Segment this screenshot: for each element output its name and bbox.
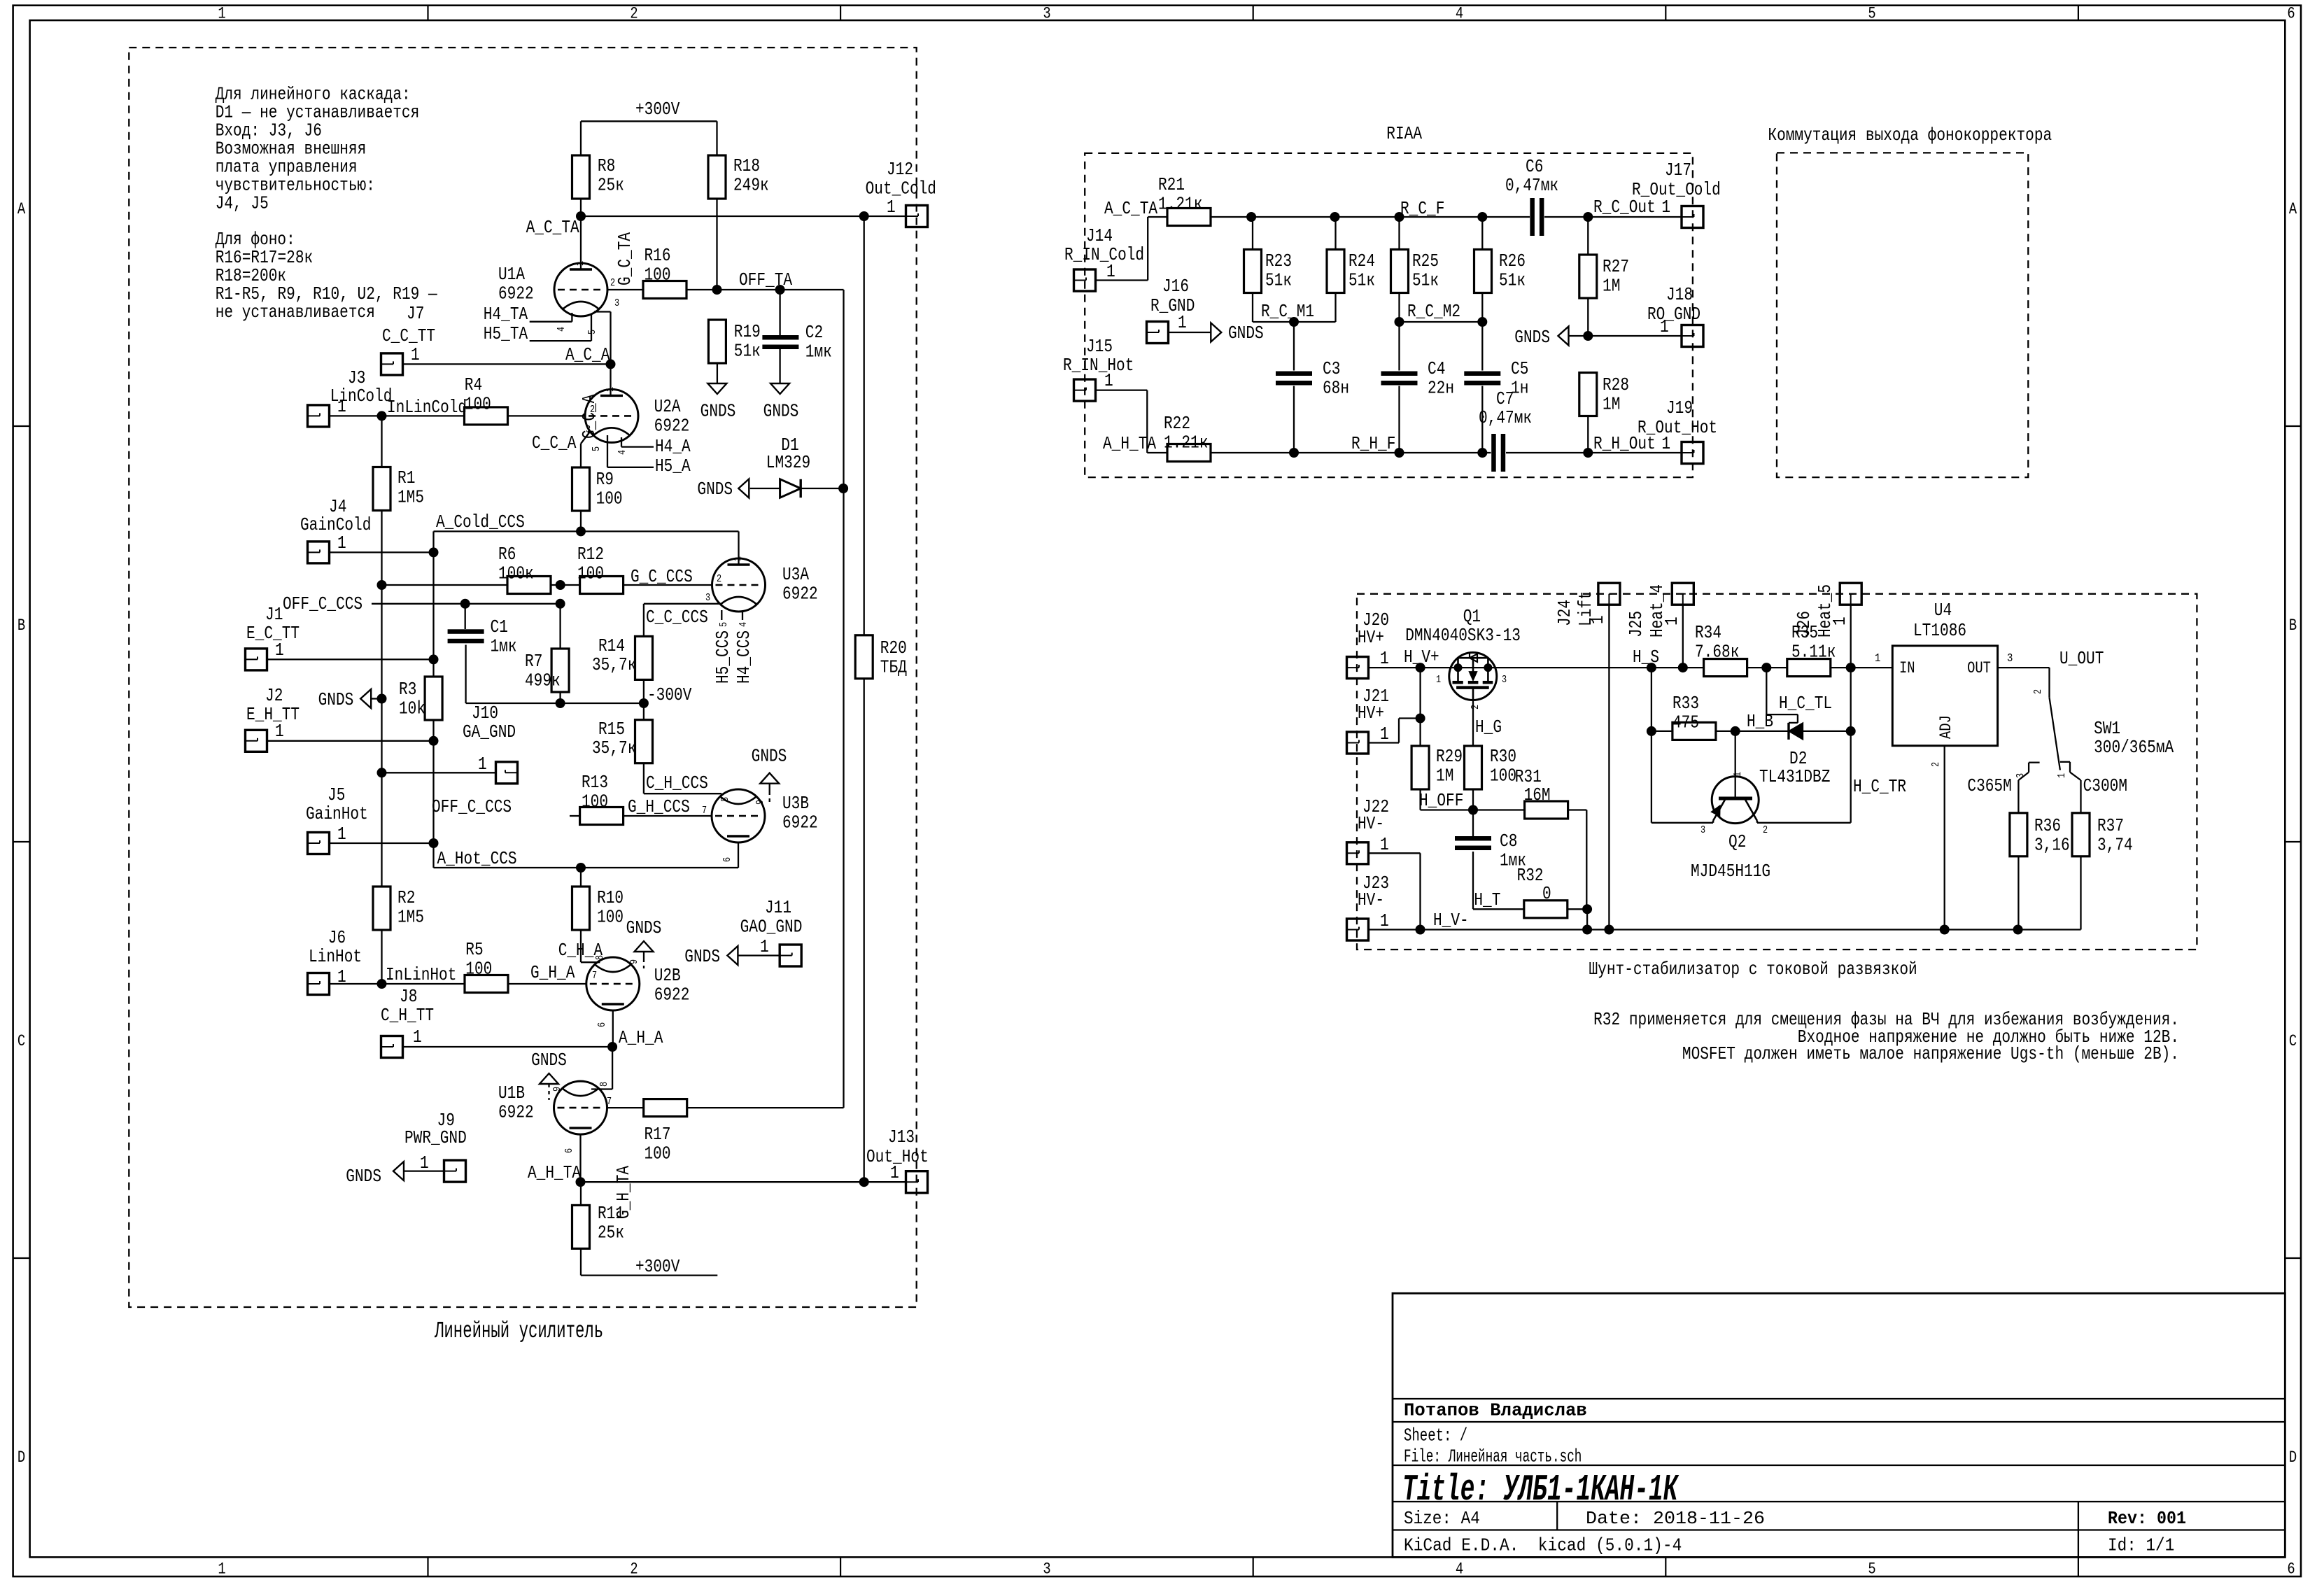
wire U2A heater H5_A <box>607 435 654 467</box>
resistor R30 <box>1465 746 1517 789</box>
resistor R28 <box>1579 373 1629 416</box>
svg-text:J15: J15 <box>1086 337 1113 357</box>
svg-text:5: 5 <box>1868 1560 1875 1579</box>
node J26 H_S <box>1846 663 1856 672</box>
svg-text:U1B: U1B <box>498 1083 525 1103</box>
svg-text:3,16: 3,16 <box>2034 835 2070 856</box>
svg-text:51к: 51к <box>734 341 761 362</box>
resistor R37 <box>2072 813 2133 856</box>
wire InLinHot <box>330 983 465 985</box>
wire J2 to E column <box>267 740 434 742</box>
switch SW1 <box>2015 689 2174 780</box>
svg-text:1: 1 <box>337 397 346 417</box>
svg-text:U2A: U2A <box>654 397 681 417</box>
wire U3A plate <box>738 531 739 565</box>
svg-text:2: 2 <box>1763 825 1768 836</box>
svg-text:0,47мк: 0,47мк <box>1505 176 1558 196</box>
resistor R9 <box>572 467 623 511</box>
wire H_V- rail <box>1369 929 2081 930</box>
wire U1A plate <box>580 216 582 269</box>
wire R7 pins <box>559 604 561 703</box>
svg-text:+300V: +300V <box>635 99 680 120</box>
svg-text:R17: R17 <box>645 1124 671 1145</box>
connector J6 <box>308 928 362 995</box>
RIAA dashed box <box>1085 153 1693 477</box>
svg-text:35,7к: 35,7к <box>592 738 636 759</box>
svg-text:1M5: 1M5 <box>397 488 424 508</box>
svg-text:C4: C4 <box>1428 359 1445 379</box>
wire InLinCold <box>330 415 465 416</box>
svg-text:3: 3 <box>1043 1560 1050 1579</box>
node OFF_TA R18 <box>712 285 722 295</box>
svg-text:A_C_TA: A_C_TA <box>526 218 580 238</box>
wire R19 bottom <box>717 363 718 383</box>
svg-text:R_IN_Cold: R_IN_Cold <box>1064 245 1144 265</box>
svg-text:D2: D2 <box>1789 749 1807 769</box>
wire E column to A_Hot_CCS <box>432 843 434 868</box>
svg-text:File: Линейная часть.sch: File: Линейная часть.sch <box>1404 1447 1582 1467</box>
svg-text:1: 1 <box>1178 313 1187 333</box>
wire U3A heater stubs <box>721 610 742 620</box>
svg-text:1: 1 <box>275 721 284 742</box>
svg-text:R11: R11 <box>598 1204 624 1224</box>
wire J9 to GNDS <box>404 1170 444 1171</box>
svg-text:R34: R34 <box>1695 623 1721 643</box>
node H_V- Lift <box>1604 925 1614 935</box>
svg-text:R29: R29 <box>1436 747 1463 767</box>
svg-text:3: 3 <box>1700 825 1705 836</box>
connector J19 <box>1638 398 1717 464</box>
svg-text:1: 1 <box>1436 675 1441 686</box>
wire R37 bottom <box>2080 856 2081 930</box>
transistor Q2 MJD45H11G <box>1691 731 1851 882</box>
svg-text:2: 2 <box>717 574 721 585</box>
svg-text:2: 2 <box>630 1560 638 1579</box>
connector J13 <box>866 1127 929 1193</box>
node Out_Cold column top <box>859 211 869 221</box>
wire C2 leads <box>779 290 780 383</box>
svg-text:Для линейного каскада:: Для линейного каскада: <box>216 85 411 105</box>
svg-text:1: 1 <box>218 1560 225 1579</box>
resistor R7 <box>525 649 569 692</box>
svg-text:300/365мА: 300/365мА <box>2094 738 2174 758</box>
svg-text:GainHot: GainHot <box>306 804 368 824</box>
wire RO_GND <box>1568 335 1682 337</box>
wire H_T <box>1473 908 1587 910</box>
svg-text:6: 6 <box>2287 5 2295 23</box>
node R29 top <box>1416 714 1425 724</box>
svg-text:R10: R10 <box>597 888 624 908</box>
wire R28 bottom <box>1587 416 1589 453</box>
node A_H_TA <box>576 1177 586 1187</box>
svg-text:OFF_C_CCS: OFF_C_CCS <box>283 594 362 614</box>
wire U4 ADJ down <box>1944 746 1945 930</box>
svg-text:HV+: HV+ <box>1358 703 1384 724</box>
svg-text:GNDS: GNDS <box>531 1050 567 1071</box>
power symbol GNDS <box>684 946 738 967</box>
node InLinCold <box>377 411 387 421</box>
svg-text:C_C_CCS: C_C_CCS <box>646 607 708 628</box>
svg-text:A_H_TA: A_H_TA <box>528 1163 582 1183</box>
svg-text:3,74: 3,74 <box>2097 835 2133 856</box>
svg-text:C300M: C300M <box>2083 776 2127 796</box>
svg-text:KiCad E.D.A. kicad (5.0.1)-4: KiCad E.D.A. kicad (5.0.1)-4 <box>1404 1536 1682 1556</box>
svg-text:чувствительностью:: чувствительностью: <box>216 176 375 196</box>
node A_H_A <box>607 1042 617 1052</box>
svg-text:J1: J1 <box>265 605 283 625</box>
svg-text:LinHot: LinHot <box>309 947 362 967</box>
pin numbers U1B <box>552 1082 612 1153</box>
resistor R6 <box>498 544 551 594</box>
svg-text:LT1086: LT1086 <box>1913 621 1966 641</box>
pin numbers U2B <box>592 955 640 1027</box>
node J1 <box>429 654 439 664</box>
resistor R8 <box>572 155 624 199</box>
node R_C_Out <box>1583 212 1593 222</box>
connector J20 <box>1347 610 1390 679</box>
svg-text:Для фоно:: Для фоно: <box>216 230 295 250</box>
node R33 left <box>1647 726 1656 736</box>
resistor R29 <box>1411 746 1463 789</box>
svg-text:R_IN_Hot: R_IN_Hot <box>1063 355 1134 376</box>
wire R36 bottom <box>2017 856 2019 930</box>
frame row letters <box>17 200 2297 1467</box>
svg-text:1: 1 <box>1104 371 1113 391</box>
svg-text:R25: R25 <box>1412 251 1439 271</box>
wire J1 to E column <box>267 658 434 660</box>
svg-text:R16: R16 <box>645 246 671 266</box>
labels C6 <box>1505 157 1558 196</box>
node R26 top <box>1477 212 1487 222</box>
svg-text:3: 3 <box>1043 5 1050 23</box>
svg-text:1: 1 <box>1661 197 1670 218</box>
power symbol GNDS <box>763 383 799 421</box>
svg-text:E_C_TT: E_C_TT <box>246 623 300 644</box>
svg-text:R22: R22 <box>1164 414 1190 434</box>
wire Q1 gate H_G <box>1472 700 1474 746</box>
svg-text:1: 1 <box>1588 615 1608 624</box>
node H_OFF <box>1468 805 1478 815</box>
svg-text:100: 100 <box>577 564 604 584</box>
svg-text:B: B <box>17 616 25 635</box>
svg-text:R_C_Out: R_C_Out <box>1593 197 1656 218</box>
connector J18 <box>1647 285 1703 347</box>
wire R35 right <box>1831 667 1893 668</box>
svg-text:R37: R37 <box>2097 816 2124 836</box>
wire R11 pins <box>580 1182 582 1275</box>
wire R17 right to OFF_TA vertical <box>687 1107 844 1108</box>
svg-text:1M: 1M <box>1603 395 1620 415</box>
node J2 <box>429 736 439 746</box>
svg-text:6: 6 <box>2287 1560 2295 1579</box>
wire A_H_A to U1B cathode <box>591 1047 612 1089</box>
connector J5 <box>306 785 368 854</box>
wire R_C rail <box>1211 216 1682 218</box>
svg-text:D: D <box>2289 1448 2297 1467</box>
wire J4 to E column <box>330 551 434 553</box>
svg-text:A_Cold_CCS: A_Cold_CCS <box>436 512 525 532</box>
power symbol GNDS <box>700 383 736 421</box>
svg-text:J24: J24 <box>1555 600 1575 626</box>
svg-text:GainCold: GainCold <box>300 515 371 535</box>
svg-text:GA_GND: GA_GND <box>463 722 516 742</box>
svg-text:R27: R27 <box>1603 257 1629 277</box>
svg-text:1: 1 <box>1380 649 1389 669</box>
connector J23 <box>1347 873 1390 940</box>
resistor R19 <box>708 320 760 363</box>
node J5 <box>429 838 439 848</box>
wire Q2 emitter column <box>1652 668 1713 823</box>
svg-text:J16: J16 <box>1162 276 1189 297</box>
svg-text:R4: R4 <box>465 375 482 395</box>
wire GNDS arrow to rail <box>371 698 381 699</box>
wire U2A cathode <box>581 432 590 468</box>
node H_T <box>1582 904 1592 914</box>
svg-text:C8: C8 <box>1500 831 1517 852</box>
svg-text:Id: 1/1: Id: 1/1 <box>2108 1536 2174 1556</box>
wire R_C_M1 <box>1253 321 1336 323</box>
svg-text:100: 100 <box>465 395 491 415</box>
resistor R17 <box>644 1099 687 1164</box>
svg-text:9: 9 <box>552 1087 563 1092</box>
svg-text:ТБД: ТБД <box>880 658 907 678</box>
svg-text:3: 3 <box>614 298 619 309</box>
wire OFF_C_CCS <box>372 603 561 605</box>
svg-text:R23: R23 <box>1265 251 1292 271</box>
capacitor C1 <box>448 617 517 657</box>
svg-text:R_GND: R_GND <box>1150 296 1195 316</box>
svg-text:2: 2 <box>1931 762 1942 767</box>
node RO_GND <box>1583 331 1593 341</box>
svg-text:4: 4 <box>617 450 628 455</box>
svg-text:LM329: LM329 <box>766 453 810 473</box>
wire U1B shield pin dashed <box>548 1084 549 1100</box>
svg-text:1: 1 <box>411 345 420 365</box>
svg-text:+300V: +300V <box>635 1257 680 1277</box>
svg-text:J18: J18 <box>1666 285 1693 305</box>
svg-text:плата управления: плата управления <box>216 157 358 178</box>
svg-text:2: 2 <box>1470 705 1481 710</box>
svg-text:100: 100 <box>597 908 624 928</box>
connector J12 <box>866 160 936 227</box>
svg-text:475: 475 <box>1672 713 1699 733</box>
wire C1 bottom <box>465 604 561 703</box>
wire R13 left stub <box>570 815 580 817</box>
svg-text:6: 6 <box>597 1022 608 1027</box>
svg-text:J4, J5: J4, J5 <box>216 194 269 214</box>
wire R5 to U2B grid <box>508 983 586 985</box>
regulator U4 LT1086 <box>1892 600 1997 746</box>
svg-text:Q1: Q1 <box>1463 607 1481 627</box>
svg-text:16M: 16M <box>1524 785 1551 805</box>
svg-text:J12: J12 <box>887 160 913 180</box>
svg-text:A_C_A: A_C_A <box>565 345 610 365</box>
resistor R16 <box>643 246 686 299</box>
svg-text:U3B: U3B <box>782 793 809 814</box>
triode U1B <box>498 1081 607 1134</box>
wire U2A heater H4_A <box>621 437 654 447</box>
svg-text:HV+: HV+ <box>1358 628 1384 648</box>
svg-text:U4: U4 <box>1934 600 1952 621</box>
wire J14 to R21 <box>1096 217 1168 281</box>
svg-text:A_C_TA: A_C_TA <box>1104 199 1158 219</box>
svg-text:5.11к: 5.11к <box>1791 642 1836 663</box>
wire H_S right <box>1652 667 1704 668</box>
wire J22 corner <box>1369 853 1421 929</box>
wire R26 pins <box>1481 217 1483 322</box>
wire J16 to GNDS <box>1169 332 1211 333</box>
svg-text:R6: R6 <box>498 544 516 565</box>
svg-text:GNDS: GNDS <box>1514 327 1550 348</box>
svg-text:C_C_A: C_C_A <box>532 433 577 453</box>
capacitor C4 <box>1381 359 1455 399</box>
capacitor C2 <box>762 323 831 362</box>
svg-text:R30: R30 <box>1490 747 1516 767</box>
wire OFF_TA <box>686 289 844 290</box>
wire A_C_TA rail <box>581 198 906 290</box>
svg-text:Возможная внешняя: Возможная внешняя <box>216 139 367 160</box>
svg-text:R15: R15 <box>598 719 625 740</box>
svg-text:J3: J3 <box>348 368 365 388</box>
svg-text:G_C_CCS: G_C_CCS <box>631 567 693 587</box>
svg-text:1: 1 <box>605 387 617 392</box>
wire H_OFF <box>1421 789 1525 810</box>
connector J17 <box>1632 160 1721 228</box>
wire J24 Lift vertical <box>1608 605 1610 929</box>
svg-text:6: 6 <box>722 857 733 862</box>
resistor R26 <box>1474 250 1526 293</box>
connector J26 <box>1794 583 1861 637</box>
svg-text:R_C_M2: R_C_M2 <box>1407 302 1460 322</box>
svg-text:8: 8 <box>599 1082 610 1087</box>
node H_V+ <box>1416 663 1425 672</box>
svg-text:R33: R33 <box>1672 693 1699 714</box>
wire R_C_M2 <box>1400 321 1483 323</box>
node R23 top <box>1246 212 1256 222</box>
wire J21 to R29 <box>1369 719 1421 743</box>
svg-text:1: 1 <box>337 967 346 987</box>
svg-text:J11: J11 <box>765 898 791 918</box>
node J25 H_S <box>1678 663 1688 672</box>
svg-text:51к: 51к <box>1499 271 1526 291</box>
pin numbers U1A <box>556 261 619 334</box>
svg-text:J13: J13 <box>888 1127 915 1148</box>
svg-text:10k: 10k <box>399 699 425 719</box>
resistor R31 <box>1525 801 1568 819</box>
svg-text:H4_TA: H4_TA <box>484 304 528 325</box>
svg-text:SW1: SW1 <box>2094 719 2120 739</box>
svg-text:51к: 51к <box>1412 271 1439 291</box>
svg-text:4: 4 <box>738 622 749 627</box>
wire U3B shield pin dashed <box>769 784 770 802</box>
svg-text:J6: J6 <box>328 928 346 948</box>
resistor R10 <box>572 887 624 930</box>
svg-text:GNDS: GNDS <box>1228 323 1264 344</box>
wire H_V+ / H_S rail <box>1369 667 1652 668</box>
svg-text:1мк: 1мк <box>491 637 517 657</box>
Kommutacia dashed box <box>1777 153 2028 477</box>
svg-text:OUT: OUT <box>1967 659 1991 677</box>
svg-text:GNDS: GNDS <box>700 401 736 421</box>
svg-text:6922: 6922 <box>782 584 818 605</box>
svg-text:PWR_GND: PWR_GND <box>404 1128 467 1148</box>
node R7 top <box>556 599 565 609</box>
resistor R22 <box>1164 414 1211 462</box>
wire C_H_TT <box>403 1046 613 1048</box>
resistor R33 <box>1672 693 1716 740</box>
svg-text:0,47мк: 0,47мк <box>1479 408 1532 428</box>
wire A_H_TA rail <box>581 1181 906 1183</box>
power symbol GNDS <box>1514 327 1568 348</box>
svg-text:4: 4 <box>1456 5 1463 23</box>
svg-text:R14: R14 <box>598 636 625 656</box>
svg-text:R21: R21 <box>1158 175 1185 195</box>
svg-text:J17: J17 <box>1665 160 1691 181</box>
connector J2 <box>246 686 300 752</box>
connector J16 <box>1147 276 1195 344</box>
svg-text:1: 1 <box>890 1163 899 1183</box>
wire U4 out <box>1998 668 2050 698</box>
node C1 <box>460 599 470 609</box>
svg-text:H4_CCS: H4_CCS <box>734 630 754 684</box>
svg-text:C_C_TT: C_C_TT <box>382 326 435 346</box>
svg-text:D: D <box>17 1448 25 1467</box>
svg-text:Коммутация выхода фонокорректо: Коммутация выхода фонокорректора <box>1768 125 2052 146</box>
transistor Q1 DMN4040SK3-13 <box>1405 607 1521 710</box>
svg-text:H_T: H_T <box>1474 890 1500 910</box>
wire J26 vertical <box>1850 605 1852 823</box>
svg-text:R16=R17=28к: R16=R17=28к <box>216 248 314 268</box>
svg-text:3: 3 <box>2007 652 2013 665</box>
wire H_C_TL path <box>1766 668 1798 723</box>
node A_Cold_CCS <box>576 526 586 536</box>
node H_V- ADJ <box>1940 925 1950 935</box>
svg-text:R18=200к: R18=200к <box>216 266 286 286</box>
labels R14 <box>592 636 636 675</box>
svg-text:H_V-: H_V- <box>1433 910 1469 931</box>
svg-text:Sheet: /: Sheet: / <box>1404 1426 1467 1446</box>
connector J21 <box>1347 686 1390 754</box>
svg-text:51к: 51к <box>1265 271 1292 291</box>
wire H_V+ down to R29 <box>1419 668 1421 746</box>
linear amplifier dashed box <box>129 48 916 1307</box>
wire U1A grid to R16 <box>607 289 643 290</box>
svg-text:1: 1 <box>337 533 346 553</box>
svg-text:GAO_GND: GAO_GND <box>740 917 803 938</box>
svg-text:1: 1 <box>1106 262 1115 282</box>
svg-text:R_Out_Hot: R_Out_Hot <box>1638 418 1717 438</box>
wire U2B shield pin dashed <box>643 952 645 968</box>
svg-text:4: 4 <box>556 327 568 332</box>
wire R10 bottom C_H_A <box>581 930 600 962</box>
svg-text:0: 0 <box>1542 884 1551 904</box>
svg-text:J19: J19 <box>1666 398 1693 418</box>
node R_C_M2 right <box>1477 317 1487 327</box>
svg-text:2: 2 <box>630 5 638 23</box>
wire U2B plate <box>612 1011 614 1048</box>
connector J22 <box>1347 797 1390 864</box>
svg-text:R18: R18 <box>733 156 760 176</box>
svg-text:7: 7 <box>702 805 707 817</box>
svg-text:Title: УЛБ1-1КАН-1К: Title: УЛБ1-1КАН-1К <box>1402 1469 1679 1511</box>
svg-text:1: 1 <box>218 5 225 23</box>
svg-text:1: 1 <box>1662 616 1682 626</box>
triode U1A <box>498 263 607 316</box>
wire J11 to GNDS <box>738 954 780 956</box>
node H_B base <box>1731 726 1740 736</box>
svg-text:1: 1 <box>760 937 769 957</box>
svg-text:100: 100 <box>645 1144 671 1164</box>
